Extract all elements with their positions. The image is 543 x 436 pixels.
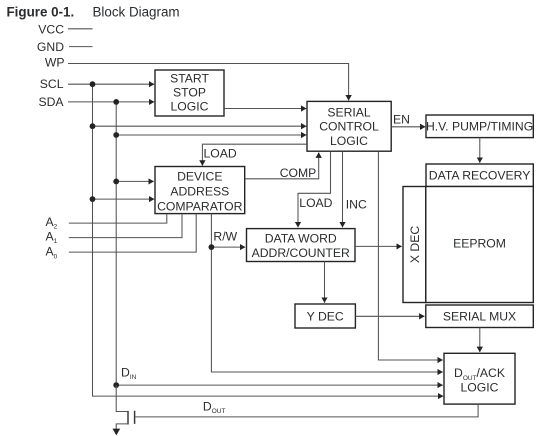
svg-text:R/W: R/W: [213, 230, 237, 244]
svg-text:SERIAL MUX: SERIAL MUX: [443, 310, 516, 324]
wire DOUT from dout/ack logic to transistor gate: [135, 404, 478, 417]
svg-text:A2: A2: [46, 215, 58, 231]
wire SCL branch to serial control logic: [93, 125, 307, 127]
svg-text:LOAD: LOAD: [204, 146, 237, 160]
block U2 SERIAL CONTROL LOGIC: [307, 101, 391, 151]
wire COMP comparator to serial control logic: [245, 153, 319, 179]
block U1 START STOP LOGIC: [155, 70, 224, 116]
node SDA comparator junction: [113, 179, 119, 185]
svg-text:ADDRESS: ADDRESS: [170, 185, 229, 199]
block U3 H.V. PUMP/TIMING: [426, 115, 533, 138]
wire GND stub: [69, 46, 93, 48]
svg-text:COMPARATOR: COMPARATOR: [157, 199, 243, 213]
svg-text:ADDR/COUNTER: ADDR/COUNTER: [252, 246, 350, 260]
svg-text:DEVICE: DEVICE: [177, 170, 222, 184]
node DIN junction: [113, 382, 119, 388]
node SDA junction: [113, 99, 119, 105]
wire SDA branch to device address comparator: [116, 180, 154, 182]
svg-text:SCL: SCL: [40, 77, 64, 91]
node SDA branch junction: [113, 132, 119, 138]
wire A0 to comparator: [69, 214, 196, 252]
wire LOAD serial control to data word counter: [298, 152, 331, 228]
block U9 DEVICE ADDRESS COMPARATOR: [155, 167, 245, 214]
wire SCL into start stop logic: [68, 83, 154, 85]
wire SDA branch to serial control logic: [116, 134, 306, 136]
block U10 DATA WORD ADDR/COUNTER: [247, 229, 356, 262]
wire INC serial control to data word counter: [342, 152, 344, 228]
wire start stop logic to serial control logic: [225, 108, 307, 110]
svg-text:DIN: DIN: [121, 365, 137, 381]
svg-text:DATA WORD: DATA WORD: [265, 232, 337, 246]
node SCL comparator junction: [90, 196, 96, 202]
wire h.v. pump to data recovery: [479, 138, 481, 163]
node R/W junction: [209, 244, 215, 250]
wire serial control to dout/ack logic: [378, 152, 442, 360]
wire A1 to comparator: [69, 214, 182, 237]
svg-text:DATA RECOVERY: DATA RECOVERY: [429, 169, 531, 183]
svg-text:INC: INC: [346, 197, 367, 211]
wire serial mux to dout/ack logic: [479, 328, 481, 353]
svg-text:SERIAL: SERIAL: [327, 105, 371, 119]
node SCL branch junction: [90, 123, 96, 129]
svg-text:EN: EN: [393, 112, 410, 126]
wire y dec to serial mux: [355, 315, 424, 317]
block U6 EEPROM: [426, 187, 534, 303]
block U8 Y DEC: [295, 304, 355, 328]
wire LOAD serial control to device address comparator: [202, 144, 307, 165]
wire EN serial control to h.v. pump: [391, 126, 425, 128]
svg-text:X DEC: X DEC: [408, 226, 422, 263]
svg-text:SDA: SDA: [38, 95, 64, 109]
block U7 SERIAL MUX: [426, 305, 534, 328]
transistor Q1 source wire: [116, 424, 127, 429]
block U11 DOUT/ACK LOGIC: [444, 353, 515, 404]
node SCL junction: [90, 81, 96, 87]
svg-text:A0: A0: [46, 245, 58, 261]
wire data word counter to y dec: [324, 262, 326, 303]
wire data word counter to x dec: [355, 245, 402, 247]
wire WP to serial control logic top: [68, 64, 349, 101]
svg-text:GND: GND: [37, 40, 64, 54]
svg-text:H.V. PUMP/TIMING: H.V. PUMP/TIMING: [426, 119, 533, 133]
svg-text:Y DEC: Y DEC: [307, 310, 344, 324]
transistor Q1 drain wire: [116, 385, 127, 411]
block U5 X DEC: [403, 187, 426, 303]
svg-text:DOUT: DOUT: [203, 399, 226, 415]
svg-text:LOGIC: LOGIC: [330, 134, 368, 148]
wire DIN to dout/ack logic: [116, 384, 443, 386]
svg-text:START: START: [170, 71, 209, 85]
svg-text:CONTROL: CONTROL: [319, 120, 379, 134]
wire A2 to comparator: [69, 214, 167, 223]
svg-text:A1: A1: [46, 229, 58, 245]
svg-text:LOAD: LOAD: [299, 196, 332, 210]
svg-text:LOGIC: LOGIC: [461, 380, 499, 394]
block U4 DATA RECOVERY: [426, 164, 533, 187]
wire SCL vertical branch down to dout/ack logic: [93, 84, 444, 396]
svg-text:LOGIC: LOGIC: [171, 100, 209, 114]
svg-text:EEPROM: EEPROM: [453, 237, 506, 251]
wire SDA vertical branch down to DIN: [115, 102, 117, 385]
wire SDA into start stop logic: [68, 101, 154, 103]
wire SCL branch to device address comparator: [93, 198, 155, 200]
wire R/W comparator branch down to dout/ack logic: [211, 214, 442, 372]
transistor Q1 channel bar: [127, 411, 129, 425]
svg-text:STOP: STOP: [173, 86, 206, 100]
svg-text:WP: WP: [45, 56, 65, 70]
svg-text:VCC: VCC: [38, 22, 64, 36]
wire VCC stub: [68, 28, 93, 30]
transistor Q1 gate bar: [134, 411, 136, 424]
svg-text:COMP: COMP: [280, 166, 317, 180]
wire R/W into data word counter: [211, 246, 245, 248]
svg-text:Figure 0-1.: Figure 0-1.: [7, 5, 75, 20]
figure caption: [7, 5, 180, 20]
svg-text:Block Diagram: Block Diagram: [93, 5, 180, 20]
ground arrow: [113, 429, 121, 436]
